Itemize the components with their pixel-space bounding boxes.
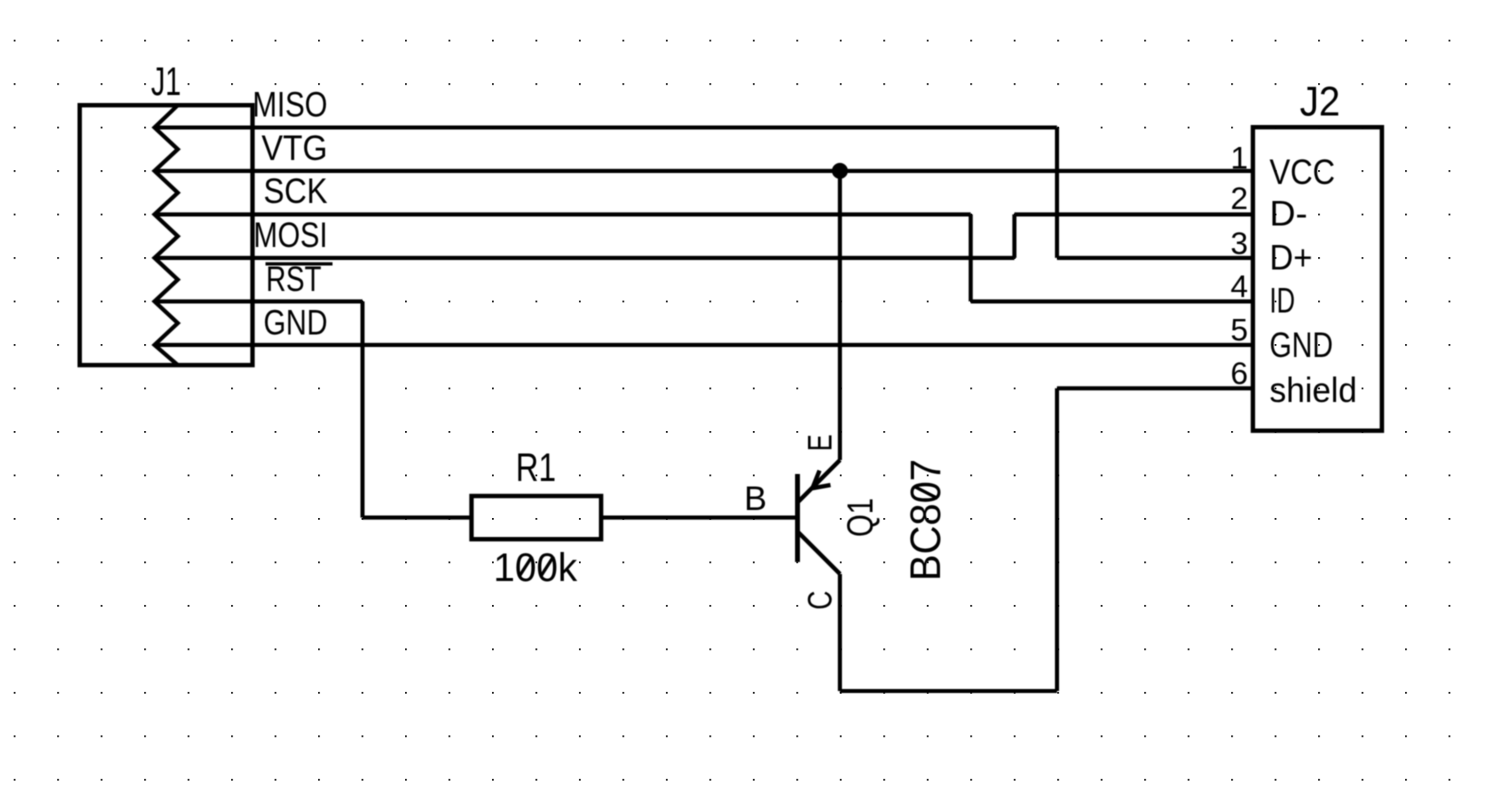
svg-text:100k: 100k — [493, 546, 578, 590]
connector J2 body — [1253, 127, 1382, 431]
transistor Q1 emitter diagonal — [798, 460, 840, 502]
svg-text:1: 1 — [1230, 139, 1248, 175]
svg-text:GND: GND — [264, 303, 328, 342]
value BC807 — [903, 459, 950, 581]
svg-text:VTG: VTG — [262, 129, 328, 168]
wire MOSI to J2 pin 2 D- — [1014, 212, 1253, 216]
transistor Q1 base bar — [795, 474, 800, 562]
svg-text:D+: D+ — [1270, 238, 1313, 277]
svg-text:E: E — [802, 434, 840, 451]
wire MOSI (J1 to vertical) — [155, 256, 1015, 260]
svg-text:GND: GND — [1270, 326, 1334, 365]
svg-text:6: 6 — [1230, 355, 1248, 391]
svg-text:ID: ID — [1270, 282, 1296, 321]
wire MOSI vertical rise — [1012, 214, 1016, 258]
wire SCK (J1 to vertical) — [155, 212, 971, 216]
svg-text:MISO: MISO — [253, 86, 328, 125]
svg-text:J1: J1 — [151, 60, 181, 104]
svg-text:2: 2 — [1230, 180, 1248, 216]
wire SCK vertical drop — [969, 214, 973, 301]
wire RST (J1 to corner) — [155, 299, 363, 303]
wire MISO to J2 pin 3 D+ — [1057, 256, 1253, 260]
svg-text:shield: shield — [1270, 371, 1358, 410]
wire MISO (J1 to vertical) — [155, 125, 1058, 129]
wire RST vertical drop — [360, 301, 364, 517]
wire collector down — [838, 574, 842, 691]
resistor R1 body — [472, 496, 602, 539]
svg-text:MOSI: MOSI — [254, 216, 328, 255]
svg-text:5: 5 — [1230, 312, 1248, 348]
svg-text:R1: R1 — [516, 446, 556, 490]
svg-text:VCC: VCC — [1270, 153, 1336, 192]
wire SCK to J2 pin 4 ID — [971, 299, 1253, 303]
wire VTG (J1 to J2 pin 1 VCC) — [155, 169, 1253, 173]
svg-text:D-: D- — [1270, 195, 1308, 234]
svg-text:Q1: Q1 — [840, 498, 881, 537]
transistor Q1 emitter arrow — [812, 471, 830, 489]
wire MISO vertical drop — [1055, 128, 1059, 258]
wire RST to resistor R1 — [363, 516, 472, 520]
svg-text:BC807: BC807 — [903, 459, 950, 581]
wire emitter to VTG junction — [838, 171, 842, 460]
svg-text:SCK: SCK — [264, 172, 328, 211]
RST overline — [266, 262, 333, 265]
svg-text:C: C — [801, 591, 839, 610]
svg-text:B: B — [744, 480, 767, 518]
wire shield vertical rise — [1055, 388, 1059, 691]
wire GND (J1 to J2 pin 5) — [155, 343, 1253, 347]
wire R1 to transistor base — [601, 516, 797, 520]
wire to J2 pin 6 shield — [1057, 386, 1253, 390]
svg-text:RST: RST — [266, 260, 322, 299]
svg-text:4: 4 — [1230, 268, 1248, 304]
slash of first zero — [520, 557, 533, 577]
transistor Q1 collector diagonal — [798, 532, 840, 574]
svg-text:3: 3 — [1230, 225, 1248, 261]
svg-text:J2: J2 — [1300, 78, 1340, 125]
connector J1 body — [80, 105, 253, 365]
wire collector bottom run — [840, 689, 1057, 693]
slash of second zero — [541, 557, 554, 577]
junction dot on VTG — [832, 163, 848, 179]
